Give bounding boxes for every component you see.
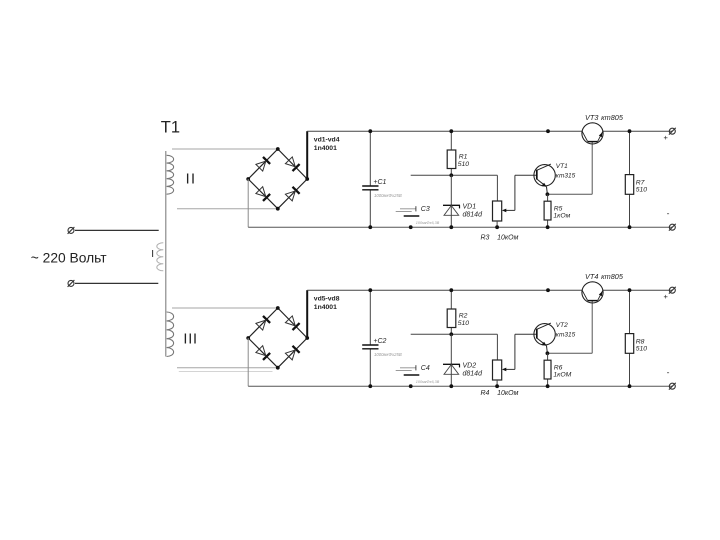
bridge rectifier vd1-vd4 sides — [248, 149, 278, 179]
svg-text:+C2: +C2 — [373, 338, 386, 345]
junction dot on positive rail — [546, 288, 550, 292]
diode VD6 (bridge upper-right) — [293, 323, 300, 330]
output terminal positive — [669, 128, 675, 134]
capacitor C3 plates — [400, 208, 416, 210]
transistor VT1 emitter arrow — [542, 183, 547, 187]
capacitor C2 leads — [369, 290, 371, 345]
resistor R5 leads — [547, 194, 549, 201]
output terminal negative — [669, 383, 675, 389]
winding II coil — [167, 155, 174, 194]
svg-text:+: + — [664, 292, 669, 301]
winding III coil — [167, 312, 174, 356]
potentiometer R4 bottom lead — [496, 380, 498, 386]
resistor R2 leads — [450, 290, 452, 309]
svg-text:VT4: VT4 — [585, 272, 598, 281]
junction dot below C3 — [409, 225, 413, 229]
resistor R8 leads — [629, 290, 631, 333]
svg-text:510: 510 — [458, 161, 470, 168]
svg-text:510: 510 — [458, 320, 470, 327]
wire: bridge vd1-vd4 - output down to negative rail — [247, 179, 249, 227]
transistor VT1 emitter line — [537, 179, 547, 187]
winding I coil (primary) — [157, 243, 164, 271]
wire: winding II bottom to bridge vd1-vd4 AC input — [177, 208, 278, 210]
resistor R1 body — [447, 150, 456, 169]
svg-text:II: II — [186, 172, 197, 188]
transistor VT4 circle — [582, 282, 603, 303]
svg-text:vd1-vd4: vd1-vd4 — [314, 137, 340, 144]
wire: negative rail — [248, 385, 672, 387]
svg-text:кт315: кт315 — [556, 173, 576, 180]
bridge vd5-vd8 node dots — [276, 306, 280, 310]
input terminal top — [68, 227, 74, 233]
svg-text:I: I — [151, 249, 154, 260]
bridge rectifier vd5-vd8 sides — [248, 308, 278, 338]
wire: positive rail (right of VT3) — [603, 130, 673, 132]
wire: mains input top — [75, 229, 159, 231]
wire: bridge vd1-vd4 + output up to positive rail — [306, 131, 308, 179]
zener diode VD1 lead — [450, 175, 452, 227]
wire: winding II top to bridge vd1-vd4 AC input — [172, 148, 278, 150]
junction dots C2 — [368, 288, 372, 292]
junction dot emitter node — [546, 192, 550, 196]
capacitor C4 plates — [400, 367, 416, 369]
diode VD7 (bridge lower-left) — [263, 353, 270, 360]
svg-text:T1: T1 — [161, 118, 180, 136]
resistor R2 body — [447, 309, 456, 328]
svg-text:1000мкФх25В: 1000мкФх25В — [374, 193, 402, 198]
wire: positive rail (left of VT4) — [307, 289, 582, 291]
transistor VT2 emitter line — [537, 338, 547, 346]
svg-text:R4: R4 — [481, 390, 490, 397]
svg-text:+: + — [664, 133, 669, 142]
svg-text:+C1: +C1 — [373, 179, 386, 186]
wire: bridge vd5-vd8 - output down to negative rail — [247, 338, 249, 386]
junction dot reference node — [449, 173, 453, 177]
output terminal positive — [669, 287, 675, 293]
diode VD3 (bridge lower-left) — [263, 194, 270, 201]
wire: winding III top to bridge vd5-vd8 AC input — [172, 307, 278, 309]
potentiometer R4 top lead — [496, 334, 498, 360]
transistor VT4 collector line — [582, 290, 588, 300]
svg-text:VD2: VD2 — [463, 362, 477, 369]
junction dot R5 bottom — [546, 225, 550, 229]
capacitor C1 leads — [369, 131, 371, 186]
wire: reference node rail — [411, 174, 498, 176]
capacitor C2 plates — [362, 344, 378, 346]
svg-text:10кОм: 10кОм — [497, 235, 519, 242]
transistor VT1 circle — [534, 165, 555, 186]
zener diode VD2 lead — [450, 334, 452, 386]
junction dot R4 bottom — [495, 384, 499, 388]
svg-text:1кОм: 1кОм — [553, 213, 570, 220]
svg-text:510: 510 — [636, 186, 648, 193]
potentiometer R4 wiper arrow — [502, 368, 506, 372]
svg-text:1кОМ: 1кОМ — [553, 372, 571, 379]
svg-text:1000мкФх25В: 1000мкФх25В — [374, 352, 402, 357]
potentiometer R3 wiper arrow — [502, 209, 506, 213]
transistor VT4 emitter line — [598, 290, 603, 300]
junction dot emitter node — [546, 351, 550, 355]
svg-text:-: - — [667, 367, 670, 377]
svg-text:1n4001: 1n4001 — [314, 304, 337, 311]
svg-text:100мкФх6,3В: 100мкФх6,3В — [416, 380, 440, 384]
junction dots C1 — [368, 129, 372, 133]
svg-text:кт805: кт805 — [601, 113, 624, 122]
junction dot VD1 bottom — [449, 225, 453, 229]
resistor R8 body — [625, 334, 633, 354]
svg-text:d814d: d814d — [463, 212, 484, 219]
wire: VT2 emitter to VT4 base — [547, 352, 592, 354]
junction dot reference node — [449, 332, 453, 336]
polarity plus of C4 — [415, 365, 417, 370]
junction dot on positive rail — [546, 129, 550, 133]
transistor VT2 collector line — [537, 323, 551, 329]
wire artifact below winding III — [179, 371, 273, 373]
svg-text:C3: C3 — [421, 206, 430, 213]
potentiometer R4 body — [493, 360, 502, 380]
input terminal bottom — [68, 280, 74, 286]
resistor R1 leads — [450, 131, 452, 150]
wire: mains input bottom — [75, 282, 158, 284]
transistor VT2 base bar — [536, 329, 538, 339]
zener diode VD2 symbol — [443, 363, 460, 365]
resistor R6 leads — [547, 353, 549, 360]
potentiometer R3 body — [493, 201, 502, 221]
transistor VT3 circle — [582, 123, 603, 144]
wire: negative rail — [248, 226, 672, 228]
svg-text:~ 220 Вольт: ~ 220 Вольт — [31, 250, 107, 265]
junction dots R7 — [628, 129, 632, 133]
transistor VT4 base bar — [588, 300, 598, 302]
transistor VT3 emitter arrow — [599, 132, 603, 137]
wire: VT1 emitter to VT3 base — [547, 193, 592, 195]
svg-text:C4: C4 — [421, 365, 430, 372]
wire: positive rail (right of VT4) — [603, 289, 673, 291]
diode VD4 (bridge lower-right) — [293, 187, 300, 194]
junction dot R2 top — [449, 288, 453, 292]
svg-text:100мкФх6,3В: 100мкФх6,3В — [416, 221, 440, 225]
wire: reference node rail — [411, 333, 498, 335]
svg-text:VT1: VT1 — [556, 163, 568, 170]
svg-text:VT3: VT3 — [585, 113, 598, 122]
potentiometer R4 wiper wire — [506, 368, 515, 370]
zener diode VD1 symbol — [443, 204, 460, 206]
potentiometer R3 top lead — [496, 175, 498, 201]
potentiometer R3 bottom lead — [496, 221, 498, 227]
transistor VT3 emitter line — [598, 131, 603, 141]
transformer T1 core — [165, 151, 167, 357]
transistor VT3 base bar — [588, 141, 598, 143]
transistor VT1 base bar — [536, 170, 538, 180]
potentiometer R3 wiper wire — [506, 209, 515, 211]
junction dot VD2 bottom — [449, 384, 453, 388]
junction dot R1 top — [449, 129, 453, 133]
svg-text:кт315: кт315 — [556, 332, 576, 339]
svg-text:VT2: VT2 — [556, 322, 568, 329]
resistor R7 body — [625, 175, 633, 195]
transistor VT2 emitter arrow — [542, 342, 547, 346]
transistor VT3 collector line — [582, 131, 588, 141]
junction dot below C4 — [409, 384, 413, 388]
junction dot R6 bottom — [546, 384, 550, 388]
svg-text:vd5-vd8: vd5-vd8 — [314, 296, 340, 303]
svg-text:1n4001: 1n4001 — [314, 145, 337, 152]
transistor VT2 circle — [534, 324, 555, 345]
svg-text:d814d: d814d — [463, 371, 484, 378]
junction dot R3 bottom — [495, 225, 499, 229]
svg-text:кт805: кт805 — [601, 272, 624, 281]
svg-text:10кОм: 10кОм — [497, 390, 519, 397]
diode VD1 (bridge upper-left) — [263, 157, 270, 164]
polarity plus of C3 — [415, 206, 417, 211]
resistor R5 body — [544, 201, 551, 220]
output terminal negative — [669, 224, 675, 230]
wire: bridge vd5-vd8 + output up to positive rail — [306, 290, 308, 338]
wire: positive rail (left of VT3) — [307, 130, 582, 132]
svg-text:R2: R2 — [459, 313, 468, 320]
junction dots R8 — [628, 288, 632, 292]
svg-text:R3: R3 — [481, 234, 490, 241]
svg-text:-: - — [667, 208, 670, 218]
svg-text:III: III — [183, 331, 198, 347]
resistor R6 body — [544, 360, 551, 379]
svg-text:510: 510 — [636, 345, 648, 352]
bridge vd1-vd4 node dots — [276, 147, 280, 151]
transistor VT1 collector line — [537, 164, 551, 170]
svg-text:R1: R1 — [459, 154, 468, 161]
capacitor C1 plates — [362, 185, 378, 187]
wire: winding III bottom to bridge vd5-vd8 AC input — [177, 367, 278, 369]
diode VD8 (bridge lower-right) — [293, 346, 300, 353]
svg-text:VD1: VD1 — [463, 203, 477, 210]
diode VD5 (bridge upper-left) — [263, 316, 270, 323]
transistor VT4 emitter arrow — [599, 291, 603, 296]
resistor R7 leads — [629, 131, 631, 174]
diode VD2 (bridge upper-right) — [293, 164, 300, 171]
